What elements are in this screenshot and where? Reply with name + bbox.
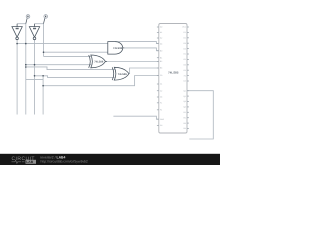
svg-text:A3: A3 (160, 42, 162, 45)
svg-text:D2: D2 (183, 37, 185, 40)
svg-text:C0: C0 (160, 74, 162, 77)
svg-text:R1: R1 (183, 111, 185, 114)
svg-text:R4: R4 (183, 127, 185, 130)
svg-text:Q4: Q4 (183, 106, 185, 109)
svg-text:C2: C2 (160, 89, 162, 92)
svg-text:B1: B1 (160, 56, 162, 59)
svg-text:Q1: Q1 (183, 89, 185, 92)
svg-text:A1: A1 (160, 31, 162, 34)
svg-text:Q2: Q2 (183, 95, 185, 98)
svg-text:F4: F4 (184, 74, 186, 77)
svg-text:GND: GND (160, 118, 165, 121)
svg-text:74LS86: 74LS86 (94, 61, 104, 64)
svg-text:B3: B3 (160, 67, 162, 70)
svg-text:R2: R2 (183, 116, 185, 119)
svg-text:F1: F1 (160, 102, 162, 105)
svg-text:74LS85: 74LS85 (168, 71, 179, 75)
svg-text:D1: D1 (183, 31, 185, 34)
svg-text:F2: F2 (160, 109, 162, 112)
svg-text:A0: A0 (160, 26, 162, 29)
svg-text:74LS86: 74LS86 (118, 73, 128, 76)
svg-text:B0: B0 (160, 49, 162, 52)
svg-text:C1: C1 (160, 83, 162, 86)
svg-text:E1: E1 (184, 53, 186, 56)
svg-text:VC1: VC1 (182, 26, 186, 29)
svg-text:D4: D4 (183, 47, 185, 50)
svg-text:http://circuitlab.com/c/r5yw3v: http://circuitlab.com/c/r5yw3vb2 (41, 160, 88, 164)
svg-text:E4: E4 (184, 69, 186, 72)
svg-text:G2: G2 (160, 124, 162, 127)
svg-text:A2: A2 (160, 37, 162, 40)
svg-text:B2: B2 (160, 60, 162, 63)
svg-text:LAB: LAB (26, 160, 33, 164)
svg-text:Q3: Q3 (183, 100, 185, 103)
svg-text:G4: G4 (183, 80, 185, 83)
svg-text:E3: E3 (184, 64, 186, 67)
svg-text:74LS08: 74LS08 (113, 47, 123, 50)
svg-text:E2: E2 (184, 58, 186, 61)
svg-text:R3: R3 (183, 122, 185, 125)
svg-text:C3: C3 (160, 96, 162, 99)
svg-text:D3: D3 (183, 42, 185, 45)
